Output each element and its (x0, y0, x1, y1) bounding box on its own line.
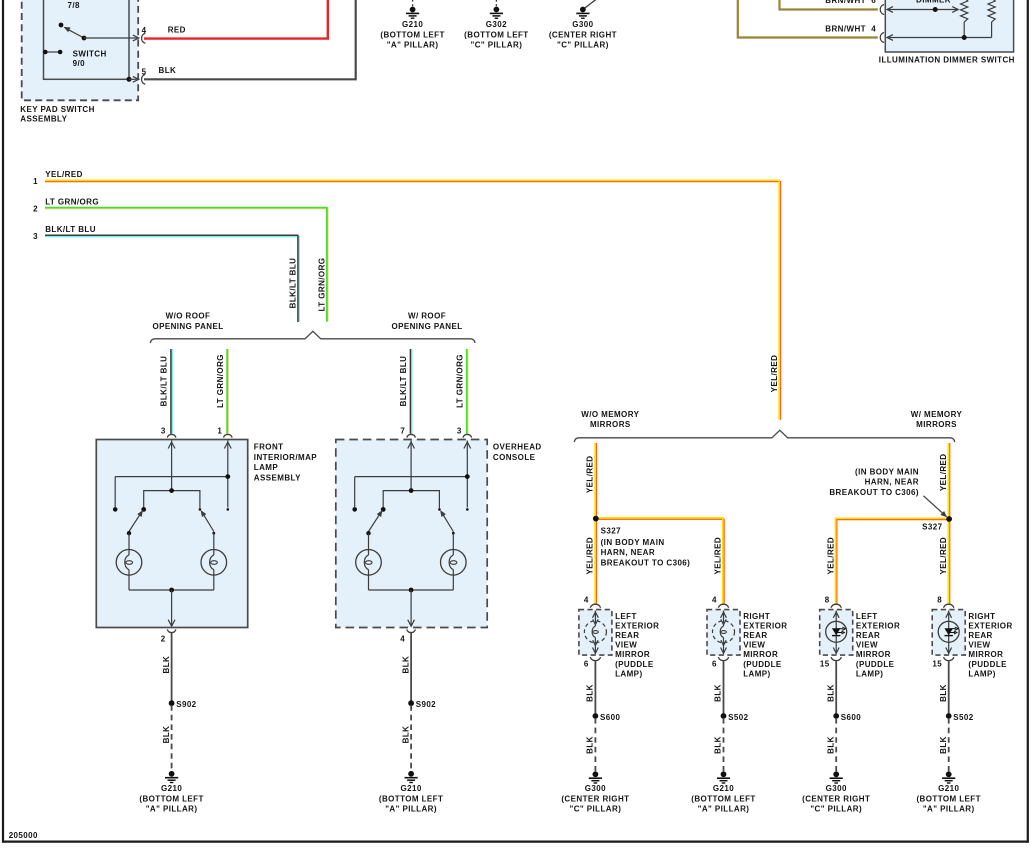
wire stub to ground G300 (583, 0, 598, 10)
svg-text:LAMP: LAMP (254, 463, 279, 472)
svg-text:6: 6 (584, 659, 589, 668)
connector pin 8 (944, 604, 954, 608)
ground G302 (494, 7, 500, 13)
connector pin 5 (142, 74, 146, 84)
wire BLK to splice S902 (410, 633, 412, 703)
wire stub to ground G302 (495, 0, 497, 6)
upper distribution wire (115, 476, 228, 478)
upper distribution wire (355, 476, 468, 478)
svg-text:"C" PILLAR): "C" PILLAR) (557, 41, 609, 50)
svg-text:3: 3 (161, 427, 166, 436)
incandescent puddle lamp symbol (584, 621, 606, 643)
ground G210 (721, 771, 727, 777)
svg-text:MIRROR: MIRROR (968, 650, 1003, 659)
svg-text:W/ MEMORY: W/ MEMORY (911, 410, 963, 419)
svg-text:(BOTTOM LEFT: (BOTTOM LEFT (139, 794, 203, 803)
connector pin 4 (880, 33, 884, 43)
svg-text:15: 15 (932, 659, 942, 668)
illumination dimmer switch box (885, 0, 1013, 52)
right exterior mirror puddle lamp box (707, 610, 740, 656)
connector pin 1 (top right) (224, 434, 233, 437)
lamp left (128, 533, 130, 555)
svg-text:3: 3 (457, 427, 462, 436)
svg-text:ASSEMBLY: ASSEMBLY (254, 473, 301, 482)
wire BLK to splice S600 (835, 661, 837, 716)
svg-text:VIEW: VIEW (615, 641, 637, 650)
switch left (369, 513, 381, 532)
svg-text:7: 7 (400, 427, 405, 436)
svg-text:G300: G300 (826, 784, 847, 793)
switch left (129, 513, 141, 532)
svg-text:LAMP): LAMP) (743, 669, 770, 678)
leader arrow to S327 (923, 496, 944, 515)
lamp left (368, 533, 370, 555)
svg-text:LT GRN/ORG: LT GRN/ORG (216, 354, 225, 408)
svg-text:"C" PILLAR): "C" PILLAR) (471, 41, 523, 50)
wire BLK dashed to ground (410, 705, 412, 771)
svg-text:BLK: BLK (162, 656, 171, 674)
svg-text:YEL/RED: YEL/RED (939, 453, 948, 491)
ground G210 (410, 7, 416, 13)
switch 9/0 contacts (45, 51, 60, 53)
svg-text:G210: G210 (402, 20, 423, 29)
splice S600 (593, 713, 599, 719)
svg-text:REAR: REAR (743, 631, 767, 640)
svg-text:(BOTTOM LEFT: (BOTTOM LEFT (916, 794, 980, 803)
svg-text:YEL/RED: YEL/RED (770, 355, 779, 393)
svg-text:VIEW: VIEW (968, 641, 990, 650)
svg-text:4: 4 (584, 596, 589, 605)
svg-text:LT GRN/ORG: LT GRN/ORG (45, 197, 99, 206)
svg-text:(BOTTOM LEFT: (BOTTOM LEFT (380, 30, 444, 39)
svg-text:EXTERIOR: EXTERIOR (615, 622, 659, 631)
connector pin 8 (831, 604, 841, 608)
wire stub to ground G210 (412, 0, 414, 6)
svg-text:BLK: BLK (939, 736, 948, 754)
svg-text:BLK: BLK (162, 726, 171, 744)
splice S902 (169, 700, 175, 706)
svg-text:4: 4 (712, 596, 717, 605)
dimmer pin 4 internal wire (889, 37, 992, 39)
svg-text:G302: G302 (486, 20, 507, 29)
svg-text:MIRROR: MIRROR (615, 650, 650, 659)
svg-text:EXTERIOR: EXTERIOR (856, 622, 900, 631)
wire LT GRN/ORG to lamp box (467, 349, 469, 434)
svg-text:(PUDDLE: (PUDDLE (743, 660, 782, 669)
lamp common return wire (369, 589, 454, 591)
svg-text:YEL/RED: YEL/RED (939, 537, 948, 575)
wire BLK dashed to ground (835, 718, 837, 771)
svg-text:BLK: BLK (826, 736, 835, 754)
svg-text:G210: G210 (713, 784, 734, 793)
wire LT GRN/ORG feed (45, 209, 328, 321)
svg-text:LEFT: LEFT (856, 612, 878, 621)
svg-text:8: 8 (937, 596, 942, 605)
svg-text:"C" PILLAR): "C" PILLAR) (810, 805, 862, 814)
connector pin 7 (top left) (407, 434, 416, 437)
svg-text:LAMP): LAMP) (968, 669, 995, 678)
svg-text:"A" PILLAR): "A" PILLAR) (385, 805, 437, 814)
left exterior mirror puddle lamp box (579, 610, 612, 656)
svg-text:(PUDDLE: (PUDDLE (856, 660, 895, 669)
svg-text:(CENTER RIGHT: (CENTER RIGHT (802, 794, 870, 803)
svg-text:KEY PAD SWITCH: KEY PAD SWITCH (20, 105, 94, 114)
svg-text:BLK: BLK (586, 736, 595, 754)
svg-text:G300: G300 (572, 20, 593, 29)
svg-text:BLK/LT BLU: BLK/LT BLU (399, 356, 408, 407)
brace w/o / w/ roof opening panel (150, 331, 475, 343)
svg-text:(CENTER RIGHT: (CENTER RIGHT (561, 794, 629, 803)
svg-text:BLK: BLK (939, 684, 948, 702)
svg-text:MIRRORS: MIRRORS (590, 420, 631, 429)
wire BLK/LT BLU to lamp box (171, 349, 173, 434)
svg-text:"C" PILLAR): "C" PILLAR) (570, 805, 622, 814)
svg-text:W/O ROOF: W/O ROOF (166, 312, 211, 321)
svg-text:W/O MEMORY: W/O MEMORY (581, 410, 639, 419)
svg-text:S502: S502 (953, 713, 973, 722)
svg-text:5: 5 (142, 68, 147, 77)
svg-text:BRN/WHT: BRN/WHT (825, 24, 866, 33)
wire YEL/RED branch to left memory mirror (837, 520, 949, 605)
svg-text:BLK/LT BLU: BLK/LT BLU (45, 225, 96, 234)
overhead box (336, 440, 487, 628)
dimmer wiper wire pin 6 (889, 9, 958, 11)
wire BLK to splice S902 (171, 633, 173, 703)
wire BLK to splice S502 (723, 661, 725, 716)
wire BLK dashed to ground (723, 718, 725, 771)
svg-text:OPENING PANEL: OPENING PANEL (391, 322, 462, 331)
svg-text:6: 6 (712, 659, 717, 668)
wire BLK/LT BLU to lamp box (411, 349, 413, 434)
right exterior mirror puddle lamp box (932, 610, 965, 656)
svg-text:"A" PILLAR): "A" PILLAR) (698, 805, 750, 814)
svg-text:(PUDDLE: (PUDDLE (968, 660, 1007, 669)
svg-text:"A" PILLAR): "A" PILLAR) (923, 805, 975, 814)
wiper junction (933, 7, 938, 12)
lamp common return wire (129, 589, 214, 591)
svg-text:G210: G210 (161, 784, 182, 793)
svg-text:S902: S902 (176, 700, 196, 709)
svg-text:3: 3 (33, 232, 38, 241)
wire BLK to splice S600 (594, 661, 596, 716)
splice S600 (833, 713, 839, 719)
lamp right (213, 533, 215, 555)
key pad switch inner module box (44, 0, 130, 79)
splice S502 (946, 713, 952, 719)
wire BRN/WHT pin 6 (780, 0, 878, 10)
connector pin 6 (718, 657, 728, 661)
middle distribution wire (383, 491, 439, 508)
svg-text:"A" PILLAR): "A" PILLAR) (146, 805, 198, 814)
key pad switch assembly (dashed enclosure) (22, 0, 139, 100)
svg-text:(IN BODY MAIN: (IN BODY MAIN (855, 467, 919, 476)
svg-text:W/ ROOF: W/ ROOF (408, 312, 446, 321)
svg-text:EXTERIOR: EXTERIOR (968, 622, 1012, 631)
splice S902 (408, 700, 414, 706)
page border frame bottom (2, 840, 1029, 842)
left exterior mirror puddle lamp box (820, 610, 853, 656)
svg-text:BLK/LT BLU: BLK/LT BLU (288, 258, 297, 309)
ground G300 (593, 771, 599, 777)
svg-text:LEFT: LEFT (615, 612, 637, 621)
svg-text:S902: S902 (416, 700, 436, 709)
svg-text:(BOTTOM LEFT: (BOTTOM LEFT (379, 794, 443, 803)
svg-text:VIEW: VIEW (856, 641, 878, 650)
svg-text:BRN/WHT: BRN/WHT (825, 0, 866, 5)
front box (96, 440, 247, 628)
ground G300 (580, 7, 586, 13)
svg-text:LAMP): LAMP) (856, 669, 883, 678)
switch right (442, 513, 453, 532)
switch 7/8 contact node (59, 23, 64, 28)
connector pin 15 (944, 657, 954, 661)
wire to pin 5 (129, 78, 137, 80)
svg-text:ASSEMBLY: ASSEMBLY (20, 115, 67, 124)
svg-text:2: 2 (33, 205, 38, 214)
svg-text:YEL/RED: YEL/RED (826, 537, 835, 575)
svg-text:4: 4 (142, 26, 147, 35)
switch 7/8 arm (68, 29, 85, 38)
connector pin 4 (142, 33, 146, 43)
svg-text:MIRROR: MIRROR (856, 650, 891, 659)
connector pin 3 (top right) (463, 434, 472, 437)
connector pin 4 (718, 604, 728, 608)
switch 7/8 pivot node (82, 36, 87, 41)
wire BLK dashed to ground (594, 718, 596, 771)
svg-text:BLK: BLK (401, 656, 410, 674)
svg-text:RIGHT: RIGHT (743, 612, 770, 621)
svg-text:4: 4 (400, 634, 405, 643)
splice S327 (right) (946, 516, 952, 522)
svg-text:DIMMER: DIMMER (916, 0, 951, 5)
junction resistor left to pin 4 (962, 35, 967, 40)
brace w/o / w/ memory mirrors (574, 430, 954, 442)
wire BLK dashed to ground (948, 718, 950, 771)
svg-text:(CENTER RIGHT: (CENTER RIGHT (549, 30, 617, 39)
svg-text:6: 6 (871, 0, 876, 5)
internal wire from top-left pin (410, 441, 412, 491)
splice S502 (721, 713, 727, 719)
svg-text:(BOTTOM LEFT: (BOTTOM LEFT (464, 30, 528, 39)
svg-text:LAMP): LAMP) (615, 669, 642, 678)
connector bottom pin (407, 629, 416, 632)
svg-text:205000: 205000 (9, 831, 38, 840)
svg-text:"A" PILLAR): "A" PILLAR) (387, 41, 439, 50)
svg-text:BLK: BLK (159, 66, 177, 75)
svg-text:FRONT: FRONT (254, 443, 284, 452)
svg-text:INTERIOR/MAP: INTERIOR/MAP (254, 453, 318, 462)
middle distribution wire (144, 491, 200, 508)
wire from switch 7/8 to pin 4 (84, 37, 137, 39)
wire BRN/WHT pin 4 (738, 0, 878, 38)
connector pin 3 (top left) (167, 434, 176, 437)
incandescent puddle lamp symbol (713, 621, 735, 643)
svg-text:9/0: 9/0 (73, 59, 86, 68)
page border frame left (2, 0, 4, 843)
svg-text:BLK/LT BLU: BLK/LT BLU (160, 356, 169, 407)
ground G300 (833, 771, 839, 777)
svg-text:7/8: 7/8 (68, 1, 81, 10)
svg-text:BREAKOUT TO C306): BREAKOUT TO C306) (601, 559, 691, 568)
dimmer resistor left (961, 0, 968, 22)
switch right (203, 513, 214, 532)
wire LT GRN/ORG to lamp box (228, 349, 230, 434)
ground G210 (408, 771, 414, 777)
wire RED from keypad pin 4 (144, 0, 328, 39)
connector pin 4 (590, 604, 600, 608)
svg-text:4: 4 (871, 24, 876, 33)
wire BLK to splice S502 (948, 661, 950, 716)
svg-text:(BOTTOM LEFT: (BOTTOM LEFT (691, 794, 755, 803)
svg-text:HARN, NEAR: HARN, NEAR (865, 478, 919, 487)
svg-text:BLK: BLK (586, 684, 595, 702)
svg-text:(IN BODY MAIN: (IN BODY MAIN (601, 538, 665, 547)
wire BLK/LT BLU feed (45, 237, 299, 322)
svg-text:S327: S327 (922, 523, 942, 532)
internal wire from top-right pin (466, 441, 468, 508)
lamp right (452, 533, 454, 555)
svg-text:BLK: BLK (401, 726, 410, 744)
wire YEL/RED w/o memory drop (595, 443, 597, 605)
svg-text:S600: S600 (841, 713, 861, 722)
svg-text:LT GRN/ORG: LT GRN/ORG (456, 354, 465, 408)
svg-text:(PUDDLE: (PUDDLE (615, 660, 654, 669)
svg-text:REAR: REAR (856, 631, 880, 640)
dimmer resistor right (988, 0, 995, 22)
LED puddle lamp symbol (826, 621, 847, 642)
wire YEL/RED main feed (45, 182, 781, 420)
svg-text:LT GRN/ORG: LT GRN/ORG (317, 258, 326, 312)
svg-text:YEL/RED: YEL/RED (586, 537, 595, 575)
page border frame right (1027, 0, 1029, 843)
ground G210 (169, 771, 175, 777)
svg-text:YEL/RED: YEL/RED (45, 170, 83, 179)
connector bottom pin (167, 629, 176, 632)
svg-text:MIRROR: MIRROR (743, 650, 778, 659)
svg-text:BLK: BLK (714, 736, 723, 754)
svg-text:EXTERIOR: EXTERIOR (743, 622, 787, 631)
svg-text:G210: G210 (938, 784, 959, 793)
connector pin 6 (590, 657, 600, 661)
junction on box bottom (127, 77, 132, 82)
svg-text:15: 15 (820, 659, 830, 668)
svg-text:BLK: BLK (826, 684, 835, 702)
wire YEL/RED w/ memory drop (949, 443, 951, 605)
svg-text:8: 8 (825, 596, 830, 605)
svg-text:YEL/RED: YEL/RED (586, 455, 595, 493)
svg-text:OPENING PANEL: OPENING PANEL (152, 322, 223, 331)
svg-text:S327: S327 (601, 527, 621, 536)
svg-text:G300: G300 (585, 784, 606, 793)
svg-text:YEL/RED: YEL/RED (714, 537, 723, 575)
svg-text:1: 1 (217, 427, 222, 436)
svg-text:REAR: REAR (615, 631, 639, 640)
svg-text:BREAKOUT TO C306): BREAKOUT TO C306) (829, 488, 919, 497)
internal wire from top-right pin (227, 441, 229, 508)
svg-text:MIRRORS: MIRRORS (916, 420, 957, 429)
svg-text:RIGHT: RIGHT (968, 612, 995, 621)
connector pin 15 (831, 657, 841, 661)
svg-text:CONSOLE: CONSOLE (493, 453, 536, 462)
svg-text:2: 2 (161, 634, 166, 643)
svg-text:REAR: REAR (968, 631, 992, 640)
svg-text:S502: S502 (728, 713, 748, 722)
svg-text:OVERHEAD: OVERHEAD (493, 443, 542, 452)
wire BLK from keypad pin 5 (144, 0, 356, 79)
connector pin 6 (880, 5, 884, 15)
svg-text:VIEW: VIEW (743, 641, 765, 650)
svg-text:RED: RED (168, 26, 186, 35)
svg-text:BLK: BLK (714, 684, 723, 702)
svg-text:SWITCH: SWITCH (73, 50, 107, 59)
svg-text:S600: S600 (600, 713, 620, 722)
svg-text:G210: G210 (400, 784, 421, 793)
svg-text:ILLUMINATION DIMMER SWITCH: ILLUMINATION DIMMER SWITCH (879, 56, 1015, 65)
internal wire from top-left pin (171, 441, 173, 491)
ground G210 (946, 771, 952, 777)
wire BLK dashed to ground (171, 705, 173, 771)
svg-text:HARN, NEAR: HARN, NEAR (601, 548, 655, 557)
svg-text:1: 1 (33, 177, 38, 186)
LED puddle lamp symbol (938, 621, 959, 642)
wire YEL/RED branch to right mirror (596, 519, 724, 605)
